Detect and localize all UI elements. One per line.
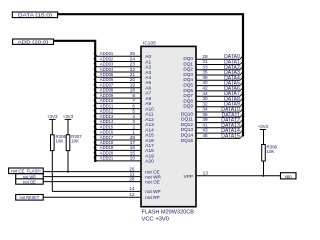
- svg-text:10: 10: [130, 156, 136, 161]
- wire net ADD06 bus-entry to pin A5 (pin 20): [94, 77, 152, 86]
- svg-text:ADD17: ADD17: [100, 135, 114, 141]
- wire net DATA9 from pin DQ9 (pin 32) to bus-entry: [183, 101, 243, 108]
- svg-text:DQ9: DQ9: [183, 104, 193, 109]
- svg-text:DQ15: DQ15: [181, 138, 194, 143]
- wire net DATA15 from pin DQ15 (pin 45) to bus-entry: [181, 133, 243, 143]
- wire net DATA4 from pin DQ4 (pin 38) to bus-entry: [183, 75, 243, 82]
- wire net DATA10 from pin DQ10 (pin 34) to bus-entry: [181, 107, 243, 117]
- wire net ADD12 bus-entry to pin A11 (pin 5): [94, 109, 154, 118]
- svg-text:not WP: not WP: [145, 189, 160, 194]
- svg-text:A2: A2: [145, 65, 151, 71]
- wire not OE to pin 28: [43, 176, 160, 184]
- svg-text:A12: A12: [145, 117, 154, 123]
- svg-text:ADD10: ADD10: [100, 98, 114, 104]
- svg-text:VPP: VPP: [184, 174, 193, 179]
- svg-text:ADD11: ADD11: [100, 103, 114, 109]
- wire net DATA6 from pin DQ6 (pin 42) to bus-entry: [183, 86, 243, 93]
- svg-text:A20: A20: [145, 159, 154, 165]
- svg-text:A6: A6: [145, 86, 151, 92]
- svg-text:FLASH M29W320CB: FLASH M29W320CB: [142, 210, 195, 216]
- svg-text:A17: A17: [145, 143, 154, 149]
- wire net ADD17 bus-entry to pin A16 (pin 48): [94, 135, 154, 144]
- wire +3V3 to R308: [263, 130, 265, 145]
- svg-text:5: 5: [132, 109, 135, 114]
- wire net ADD15 bus-entry to pin A14 (pin 2): [94, 124, 154, 133]
- wire net DATA1 from pin DQ1 (pin 31) to bus-entry: [183, 59, 243, 66]
- svg-text:10K: 10K: [56, 139, 64, 144]
- svg-text:16: 16: [130, 145, 136, 150]
- svg-text:ADD12: ADD12: [100, 109, 114, 115]
- svg-text:DATA (15:0): DATA (15:0): [18, 13, 53, 19]
- svg-text:A11: A11: [145, 112, 154, 118]
- svg-text:A8: A8: [145, 96, 151, 102]
- bus ADD horizontal+vertical: [54, 41, 96, 162]
- svg-text:A4: A4: [145, 75, 151, 81]
- wire R307 to not CE wire: [67, 151, 69, 172]
- wire net DATA7 from pin DQ7 (pin 44) to bus-entry: [183, 91, 243, 98]
- svg-text:36: 36: [202, 112, 208, 117]
- wire net DATA11 from pin DQ11 (pin 36) to bus-entry: [181, 112, 243, 122]
- resistor R307 10K: [66, 134, 82, 150]
- wire +3V3 to R306: [51, 119, 53, 134]
- svg-text:+3V3: +3V3: [47, 114, 58, 119]
- svg-text:ADD06: ADD06: [100, 77, 114, 83]
- port not RESET: [16, 195, 44, 201]
- svg-text:DQ13: DQ13: [181, 127, 194, 132]
- svg-text:ADD03: ADD03: [100, 62, 114, 68]
- svg-text:+3V3: +3V3: [258, 124, 269, 129]
- resistor R306 10K: [51, 134, 67, 150]
- svg-text:A7: A7: [145, 91, 151, 97]
- svg-text:not CE_FLASH: not CE_FLASH: [11, 169, 40, 174]
- svg-text:not RESET: not RESET: [20, 195, 40, 200]
- svg-text:DQ1: DQ1: [183, 61, 193, 66]
- wire net DATA5 from pin DQ5 (pin 40) to bus-entry: [183, 80, 243, 87]
- wire net ADD07 bus-entry to pin A6 (pin 19): [94, 83, 152, 92]
- wire not WR to pin 11: [43, 171, 161, 179]
- value label VCC +3V0: [142, 216, 170, 222]
- wire net ADD21 bus-entry to pin A20 (pin 10): [94, 156, 154, 165]
- svg-text:24: 24: [130, 56, 136, 61]
- svg-text:ADD15: ADD15: [100, 124, 114, 130]
- svg-text:41: 41: [202, 122, 208, 127]
- wire +3V3 to R307: [67, 119, 69, 134]
- svg-text:31: 31: [202, 59, 208, 64]
- wire net ADD18 bus-entry to pin A17 (pin 17): [94, 140, 154, 149]
- svg-text:A14: A14: [145, 127, 154, 133]
- port vpp: [281, 173, 297, 179]
- svg-text:A3: A3: [145, 70, 151, 76]
- svg-text:A16: A16: [145, 138, 154, 144]
- svg-text:ADD08: ADD08: [100, 88, 114, 94]
- svg-text:A5: A5: [145, 80, 151, 86]
- svg-text:ADD04: ADD04: [100, 67, 114, 73]
- svg-text:32: 32: [202, 101, 208, 106]
- svg-text:DQ11: DQ11: [181, 117, 193, 122]
- svg-text:A1: A1: [145, 59, 151, 65]
- junction R308/VPP: [263, 175, 265, 177]
- port not CE_FLASH: [9, 168, 44, 174]
- wire not CE to pin 26: [43, 166, 159, 174]
- svg-text:35: 35: [202, 70, 208, 75]
- svg-text:DQ6: DQ6: [183, 88, 193, 93]
- port ADD(20:0): [13, 39, 54, 46]
- svg-text:A9: A9: [145, 101, 151, 107]
- wire net ADD10 bus-entry to pin A9 (pin 7): [94, 98, 152, 107]
- wire net ADD03 bus-entry to pin A2 (pin 23): [94, 62, 152, 71]
- power +3V3 (right): [258, 124, 269, 129]
- wire net ADD05 bus-entry to pin A4 (pin 21): [94, 72, 152, 81]
- svg-text:not RP: not RP: [145, 195, 159, 200]
- svg-text:ADD01: ADD01: [100, 51, 114, 57]
- wire net ADD11 bus-entry to pin A10 (pin 6): [94, 103, 154, 112]
- svg-text:ADD07: ADD07: [100, 83, 114, 89]
- svg-text:DQ10: DQ10: [181, 111, 194, 116]
- svg-text:A19: A19: [145, 154, 154, 160]
- svg-text:40: 40: [202, 80, 208, 85]
- svg-text:13: 13: [203, 171, 209, 176]
- port DATA(15:0): [12, 12, 57, 19]
- port not OE: [16, 179, 44, 185]
- wire net ADD09 bus-entry to pin A8 (pin 8): [94, 93, 152, 102]
- svg-text:A13: A13: [145, 122, 154, 128]
- power +3V3 (left 1): [47, 114, 58, 120]
- svg-text:IC105: IC105: [143, 41, 156, 47]
- svg-text:A0: A0: [145, 54, 151, 60]
- wire not RP to pin 12: [43, 192, 159, 200]
- wire R308 to VPP wire: [263, 161, 265, 176]
- wire net ADD08 bus-entry to pin A7 (pin 18): [94, 88, 152, 97]
- svg-text:DQ3: DQ3: [183, 72, 193, 77]
- wire net ADD04 bus-entry to pin A3 (pin 22): [94, 67, 152, 76]
- svg-text:2: 2: [132, 124, 135, 129]
- wire net DATA12 from pin DQ12 (pin 39) to bus-entry: [181, 117, 243, 127]
- wire net DATA0 from pin DQ0 (pin 29) to bus-entry: [183, 54, 243, 61]
- svg-text:45: 45: [202, 133, 208, 138]
- svg-text:14: 14: [129, 186, 135, 191]
- wire VPP pin 13 to vpp port: [184, 171, 281, 179]
- svg-text:ADD21: ADD21: [100, 156, 114, 162]
- svg-text:42: 42: [202, 86, 208, 91]
- wire net ADD19 bus-entry to pin A18 (pin 16): [94, 145, 154, 154]
- svg-text:ADD18: ADD18: [100, 140, 114, 146]
- svg-text:A10: A10: [145, 106, 154, 112]
- svg-text:43: 43: [202, 128, 208, 133]
- svg-text:ADD (20:0): ADD (20:0): [18, 40, 49, 46]
- svg-text:ADD05: ADD05: [100, 72, 114, 78]
- svg-text:30: 30: [202, 96, 208, 101]
- svg-text:29: 29: [202, 54, 208, 59]
- junction R307/notCE: [67, 171, 69, 173]
- svg-text:ADD02: ADD02: [100, 56, 114, 62]
- svg-text:ADD20: ADD20: [100, 151, 114, 157]
- port not WR: [16, 174, 44, 180]
- svg-text:34: 34: [202, 107, 208, 112]
- wire net DATA13 from pin DQ13 (pin 41) to bus-entry: [181, 122, 243, 132]
- wire net ADD20 bus-entry to pin A19 (pin 15): [94, 151, 154, 160]
- svg-text:vpp: vpp: [285, 174, 293, 179]
- wire net ADD01 bus-entry to pin A0 (pin 25): [94, 51, 152, 60]
- wire net ADD14 bus-entry to pin A13 (pin 3): [94, 119, 154, 128]
- wire net ADD02 bus-entry to pin A1 (pin 24): [94, 56, 152, 65]
- svg-text:38: 38: [202, 75, 208, 80]
- wire net DATA3 from pin DQ3 (pin 35) to bus-entry: [183, 70, 243, 77]
- svg-text:A18: A18: [145, 148, 154, 154]
- svg-text:not OE: not OE: [145, 179, 160, 184]
- svg-text:DATA15: DATA15: [221, 133, 240, 139]
- power +3V3 (left 2): [63, 114, 74, 120]
- svg-text:DQ4: DQ4: [183, 77, 193, 82]
- wire net ADD13 bus-entry to pin A12 (pin 4): [94, 114, 154, 123]
- svg-text:+3V3: +3V3: [63, 114, 74, 119]
- svg-text:ADD13: ADD13: [100, 114, 114, 120]
- wire net ADD16 bus-entry to pin A15 (pin 1): [94, 130, 154, 139]
- svg-text:10K: 10K: [267, 149, 275, 154]
- svg-text:20: 20: [130, 77, 136, 82]
- svg-text:DQ0: DQ0: [183, 56, 193, 61]
- svg-text:10K: 10K: [71, 139, 79, 144]
- svg-text:ADD19: ADD19: [100, 145, 114, 151]
- svg-text:DQ14: DQ14: [181, 133, 194, 138]
- svg-text:8: 8: [132, 93, 135, 98]
- svg-text:VCC +3V0: VCC +3V0: [142, 216, 170, 222]
- bus DATA horizontal+vertical: [58, 14, 243, 136]
- value label FLASH M29W320CB: [142, 210, 195, 216]
- svg-text:DQ8: DQ8: [183, 98, 193, 103]
- flash memory IC105 body: [141, 41, 196, 207]
- svg-text:ADD09: ADD09: [100, 93, 114, 99]
- svg-text:A15: A15: [145, 133, 154, 139]
- wire net DATA2 from pin DQ2 (pin 33) to bus-entry: [183, 64, 243, 71]
- wire not WP pin 14 from resistor R306: [52, 186, 160, 194]
- wire net DATA14 from pin DQ14 (pin 43) to bus-entry: [181, 128, 243, 138]
- svg-text:not OE: not OE: [23, 179, 36, 184]
- resistor R308 10K: [262, 144, 278, 161]
- wire net DATA8 from pin DQ8 (pin 30) to bus-entry: [183, 96, 243, 103]
- svg-text:ADD16: ADD16: [100, 130, 114, 136]
- svg-text:28: 28: [129, 176, 135, 181]
- svg-text:DQ5: DQ5: [183, 83, 193, 88]
- wire R306 to not WP: [51, 151, 53, 192]
- svg-text:ADD14: ADD14: [100, 119, 114, 125]
- svg-text:12: 12: [129, 192, 135, 197]
